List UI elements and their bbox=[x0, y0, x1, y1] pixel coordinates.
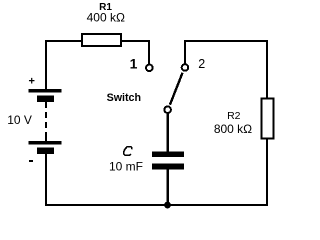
capacitor C bottom plate bbox=[152, 164, 184, 170]
battery V1 lower cell positive plate (long) bbox=[29, 141, 62, 145]
wire: top-left horizontal from corner to R1 bbox=[45, 40, 82, 42]
battery V1 lower cell negative plate (short thick) bbox=[37, 148, 54, 155]
svg-text:Switch: Switch bbox=[107, 92, 141, 104]
svg-text:10 V: 10 V bbox=[7, 113, 32, 127]
switch arm: diagonal blade from node 2 to pole bbox=[170, 73, 183, 105]
wire: dashed link between battery cells bbox=[45, 102, 47, 141]
wire: right vertical from top rail down to R2 bbox=[266, 40, 268, 99]
svg-text:2: 2 bbox=[198, 57, 205, 71]
wire: from R1 right side to corner above node 1 bbox=[121, 41, 149, 64]
svg-text:800 kΩ: 800 kΩ bbox=[214, 122, 252, 136]
wire: left vertical from battery - plate down to bottom rail bbox=[45, 154, 47, 206]
battery V1 upper cell positive plate (long) bbox=[29, 89, 62, 93]
switch pole circle bbox=[164, 106, 171, 113]
wire: from capacitor bottom plate down to bottom rail bbox=[166, 169, 169, 205]
junction dot at bottom rail bbox=[164, 202, 171, 209]
wire: bottom rail bbox=[45, 204, 268, 206]
svg-text:400 kΩ: 400 kΩ bbox=[87, 11, 125, 25]
wire: top-right horizontal from node 2 riser to right rail bbox=[184, 40, 267, 42]
svg-text:R2: R2 bbox=[227, 110, 241, 122]
battery V1 upper cell negative plate (short thick) bbox=[37, 96, 54, 103]
node 1 terminal circle bbox=[146, 65, 153, 72]
svg-text:1: 1 bbox=[130, 55, 138, 71]
node 2 terminal circle bbox=[182, 64, 189, 71]
wire: vertical above node 2 bbox=[184, 41, 186, 64]
label C (script) bbox=[124, 147, 132, 156]
wire: from switch pole down to capacitor top plate bbox=[166, 113, 169, 152]
capacitor C top plate bbox=[152, 152, 184, 158]
svg-text:+: + bbox=[28, 76, 34, 88]
wire: right vertical from R2 down to bottom rail bbox=[266, 138, 268, 206]
label - bbox=[29, 160, 33, 162]
svg-text:10 mF: 10 mF bbox=[109, 160, 143, 174]
wire: left vertical from top-left corner down to battery + plate bbox=[45, 40, 47, 89]
resistor R2 bbox=[262, 99, 274, 139]
resistor R1 bbox=[82, 34, 121, 46]
